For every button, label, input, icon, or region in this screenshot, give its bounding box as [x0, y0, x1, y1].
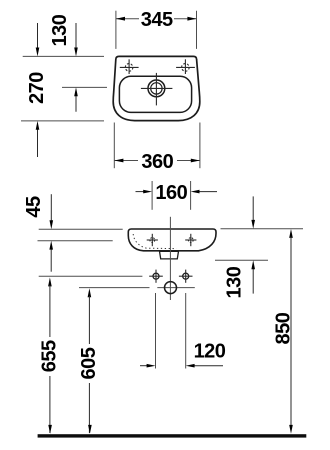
svg-text:45: 45: [23, 196, 45, 218]
dimension 850: [289, 229, 293, 434]
siphon outlet circle: [165, 282, 177, 294]
svg-text:160: 160: [155, 182, 187, 204]
fixing hole left (front view): [149, 270, 163, 283]
tap hole right (top view): [176, 59, 195, 74]
dimension 120 arrows (outside): [140, 364, 223, 368]
svg-text:120: 120: [194, 341, 226, 363]
tap hole cross left (front view): [147, 234, 158, 246]
rim extension line right: [221, 228, 304, 230]
svg-text:270: 270: [26, 72, 48, 104]
dimension 160 arrows (outside): [136, 190, 218, 194]
dimension 160 extension lines: [151, 181, 153, 210]
siphon line (605 reference): [79, 287, 150, 289]
dimension 655: [48, 278, 52, 434]
extension line rear edge (left of top view): [23, 55, 104, 57]
dimension 360 line and arrows: [114, 160, 200, 162]
fixing hole right (front view): [179, 270, 193, 283]
dimension 45 arrows: [49, 194, 53, 272]
basin body outline (front view): [128, 229, 216, 251]
tap hole cross right (front view): [185, 234, 196, 246]
hidden interior contour (dashed): [133, 234, 176, 249]
rim extension line left: [39, 228, 123, 230]
lower reference line right (130): [215, 259, 268, 261]
fixing holes line (655 reference): [39, 275, 143, 277]
dimension 605: [88, 288, 92, 434]
tap line extension left: [38, 240, 113, 242]
svg-text:130: 130: [49, 14, 71, 46]
basin inner rim (top view): [119, 76, 191, 112]
dimension 270 arrows: [36, 23, 40, 157]
svg-text:360: 360: [141, 151, 173, 173]
dimension 130 (plan, rear to drain) arrows: [74, 23, 78, 112]
dimension 120 extension lines: [155, 293, 157, 369]
svg-text:130: 130: [223, 266, 245, 298]
basin outer outline (top view): [113, 56, 200, 120]
drain with overflow (top view): [141, 73, 173, 106]
dimension 345 line and arrows: [116, 18, 197, 20]
dimension 130 (right) arrows: [251, 196, 255, 293]
drain outlet (front view): [160, 251, 179, 259]
extension line front edge (left): [21, 120, 104, 122]
svg-text:605: 605: [78, 347, 100, 379]
extension line drain centre (left): [62, 86, 107, 88]
tap hole left (top view): [120, 59, 139, 74]
dimension 345 extension lines: [115, 11, 117, 49]
svg-text:345: 345: [141, 9, 173, 31]
vertical centreline (front view): [169, 217, 171, 300]
dimension 360 extension lines: [113, 123, 115, 169]
floor line: [38, 434, 307, 437]
svg-text:850: 850: [272, 312, 294, 344]
svg-text:655: 655: [38, 340, 60, 372]
